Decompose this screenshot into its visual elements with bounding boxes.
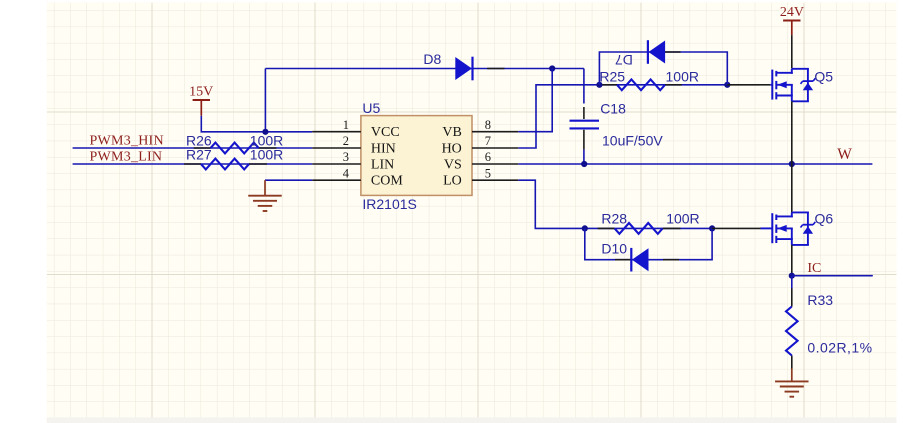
drain tick	[776, 215, 793, 217]
svg-text:W: W	[837, 146, 852, 163]
capacitor C18 plates	[570, 120, 600, 122]
wire IC net	[792, 275, 873, 277]
pin 4 COM	[312, 179, 361, 181]
svg-text:0.02R,1%: 0.02R,1%	[807, 340, 872, 356]
svg-text:VCC: VCC	[371, 125, 400, 140]
svg-text:5: 5	[485, 166, 491, 180]
source arrow tick	[776, 227, 793, 229]
wire D8 row	[265, 68, 584, 70]
svg-text:6: 6	[485, 150, 491, 164]
transistor Q5 gate pin	[727, 84, 760, 86]
diode D10 pins black	[615, 259, 631, 261]
svg-text:3: 3	[343, 150, 349, 164]
resistor R26 pins black	[194, 147, 211, 149]
wire Q5 source to W	[791, 101, 793, 164]
resistor R33	[786, 307, 798, 356]
capacitor C18 pins black	[583, 107, 585, 119]
svg-text:C18: C18	[600, 100, 626, 116]
wire VB pin8 to bootstrap node	[518, 69, 552, 132]
resistor R33 pins black	[791, 289, 793, 307]
svg-text:HIN: HIN	[371, 141, 396, 156]
pin 6 VS	[472, 163, 518, 165]
junction R28 right	[709, 225, 715, 231]
junction VCC node	[262, 129, 268, 135]
wire Q6 source to IC node	[791, 245, 793, 276]
wire D7 loop	[599, 52, 727, 85]
junction R25 left	[596, 82, 602, 88]
op-amp/driver U5 IR2101S body	[361, 116, 472, 196]
junction R28 left	[582, 225, 588, 231]
svg-text:R25: R25	[599, 69, 625, 85]
wire VS / W row	[518, 163, 872, 165]
svg-text:100R: 100R	[666, 210, 699, 226]
ground (R33)	[791, 369, 793, 382]
source arrow tick	[776, 84, 793, 86]
svg-text:IR2101S: IR2101S	[362, 196, 416, 212]
source tick	[776, 95, 793, 97]
resistor R26	[211, 143, 259, 154]
svg-text:10uF/50V: 10uF/50V	[602, 133, 663, 149]
pin 5 LO	[472, 179, 518, 181]
drain tick	[776, 72, 793, 74]
svg-text:LIN: LIN	[371, 157, 394, 172]
diode D7	[649, 41, 666, 64]
diode D8	[455, 57, 472, 80]
wire PWM3_LIN to R27	[73, 163, 313, 165]
wire IC node to R33	[791, 276, 793, 289]
svg-text:8: 8	[485, 118, 491, 132]
svg-text:IC: IC	[807, 261, 821, 276]
wire PWM3_HIN to R26	[73, 147, 313, 149]
resistor R27	[201, 159, 249, 170]
body diode	[803, 226, 813, 234]
wire W to Q6 drain	[791, 164, 793, 212]
pin 2 HIN	[312, 147, 361, 149]
transistor Q6 gate pin	[712, 227, 760, 229]
resistor R25	[617, 79, 665, 90]
svg-text:D7: D7	[615, 52, 633, 68]
svg-text:15V: 15V	[189, 84, 213, 99]
gate bar	[771, 213, 773, 243]
resistor R25 pins black	[600, 84, 617, 86]
axis blue segments	[791, 212, 793, 217]
svg-text:D8: D8	[423, 51, 441, 67]
junction R25 right	[724, 82, 730, 88]
source tick	[776, 238, 793, 240]
channel bar dashes	[775, 71, 777, 77]
resistor R27 pins black	[184, 163, 201, 165]
svg-text:100R: 100R	[666, 69, 699, 85]
pin 7 HO	[472, 147, 518, 149]
axis blue segments	[791, 69, 793, 74]
svg-text:U5: U5	[362, 100, 380, 116]
power port 24V	[783, 20, 800, 22]
svg-text:R28: R28	[601, 210, 627, 226]
wire 24V to Q5 drain	[791, 35, 793, 68]
svg-text:Q5: Q5	[814, 68, 833, 84]
svg-text:HO: HO	[442, 141, 462, 156]
diode D8 pin black	[487, 68, 504, 70]
ground stem	[791, 380, 793, 382]
wire C18 top branch	[583, 69, 585, 104]
diode D7 pin black	[664, 51, 680, 53]
wire R28 row	[585, 227, 712, 229]
pin 3 LIN	[312, 163, 361, 165]
diode D10	[632, 248, 649, 271]
ground (COM)	[264, 180, 266, 196]
wire D10 loop	[585, 228, 712, 259]
svg-text:VB: VB	[442, 125, 461, 140]
svg-text:4: 4	[343, 166, 350, 180]
resistor R28 pins black	[598, 227, 615, 229]
wire COM to ground	[265, 179, 312, 181]
wire LO pin5 down	[518, 180, 585, 228]
svg-text:VS: VS	[444, 157, 462, 172]
junction C18 bottom	[581, 161, 587, 167]
body diode	[803, 83, 813, 91]
svg-text:COM: COM	[371, 174, 403, 189]
pin 8 VB	[472, 131, 518, 133]
pin 1 VCC	[312, 131, 361, 133]
svg-text:7: 7	[485, 134, 491, 148]
svg-text:1: 1	[343, 118, 349, 132]
wire D8 anode vertical	[264, 69, 266, 132]
svg-text:R33: R33	[807, 292, 833, 308]
svg-text:24V: 24V	[780, 5, 804, 20]
svg-text:100R: 100R	[250, 147, 283, 163]
wire C18 bottom branch	[583, 150, 585, 164]
svg-text:Q6: Q6	[815, 210, 834, 226]
junction W node	[789, 161, 795, 167]
channel bar dashes	[775, 215, 777, 221]
ground stem	[264, 195, 266, 197]
svg-text:PWM3_HIN: PWM3_HIN	[90, 133, 164, 148]
resistor R28	[615, 223, 663, 234]
wire R25 row	[599, 84, 727, 86]
svg-text:LO: LO	[443, 174, 462, 189]
power port 15V	[193, 99, 210, 101]
svg-text:2: 2	[343, 134, 349, 148]
gate bar	[771, 70, 773, 100]
svg-text:R27: R27	[186, 147, 212, 163]
body diode branch	[792, 68, 809, 70]
junction VB node	[549, 65, 555, 71]
svg-text:D10: D10	[601, 241, 627, 257]
wire HO pin7 to gate node	[518, 85, 599, 148]
wire 15V to VCC	[201, 116, 312, 132]
body diode branch	[792, 211, 809, 213]
junction IC node	[789, 273, 795, 279]
svg-text:PWM3_LIN: PWM3_LIN	[90, 149, 163, 164]
